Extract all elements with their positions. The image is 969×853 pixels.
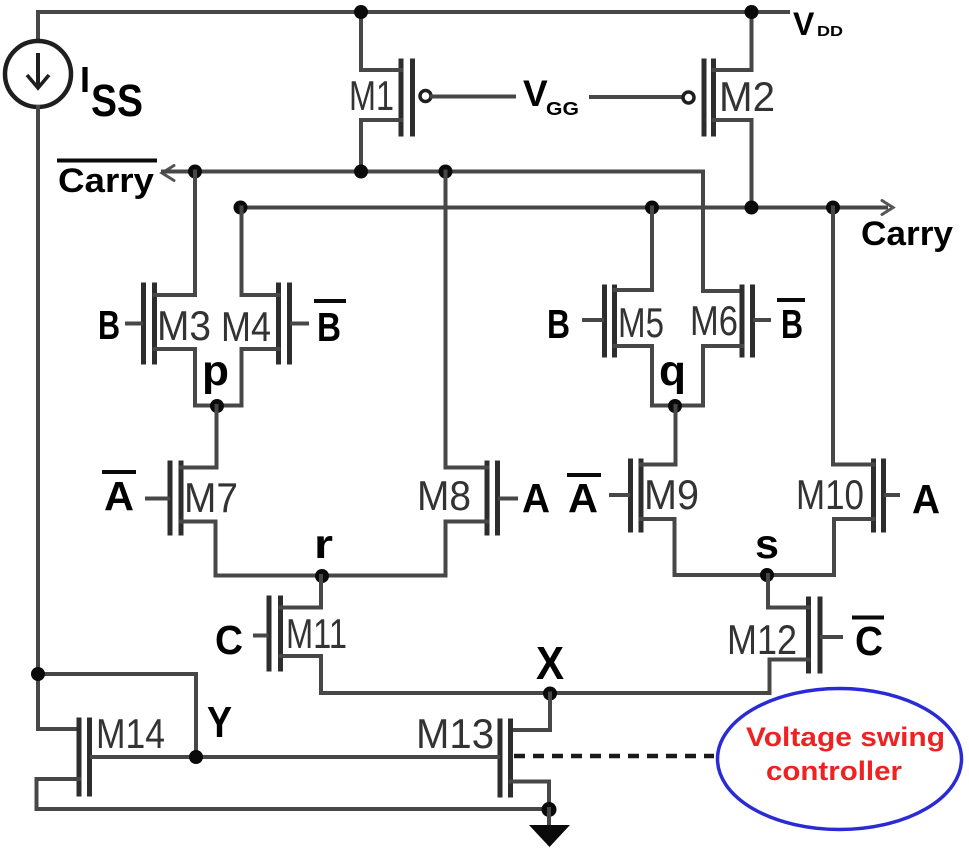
svg-text:C: C xyxy=(215,617,243,663)
svg-text:V: V xyxy=(523,73,548,114)
transistor M9 xyxy=(611,461,699,575)
svg-text:Voltage swing: Voltage swing xyxy=(746,722,945,752)
svg-text:Carry: Carry xyxy=(861,215,953,253)
svg-text:A: A xyxy=(912,476,940,522)
transistor M6 xyxy=(690,287,769,406)
node p xyxy=(195,347,242,413)
node A-bar label M9 xyxy=(567,475,601,521)
svg-text:GG: GG xyxy=(546,99,579,119)
node C-bar label M12 xyxy=(852,618,884,665)
node Carry-bar label xyxy=(57,161,157,201)
svg-text:B: B xyxy=(317,304,341,350)
svg-text:I: I xyxy=(80,59,90,100)
node VDD label xyxy=(793,6,843,42)
node X xyxy=(536,637,564,701)
wire q to M9 xyxy=(674,406,678,465)
node junction dot M2-VDD xyxy=(745,5,759,19)
wire p to M7 xyxy=(215,406,219,468)
wire Y line M14 gate to M13 gate xyxy=(92,755,498,759)
wire ISS vertical left rail xyxy=(38,107,79,729)
node junction dots on Carry-bar line xyxy=(188,165,202,179)
voltage swing controller ellipse xyxy=(718,689,962,830)
transistor M2 xyxy=(683,12,775,208)
wire r to M11 xyxy=(319,576,323,608)
svg-text:M13: M13 xyxy=(416,710,494,757)
svg-text:q: q xyxy=(659,347,686,395)
svg-text:s: s xyxy=(755,521,779,567)
wire Carry line with right arrow xyxy=(241,201,894,215)
svg-text:V: V xyxy=(793,6,815,42)
svg-text:M3: M3 xyxy=(157,302,211,349)
transistor M10 xyxy=(796,208,898,576)
node junction dot left xyxy=(31,667,45,681)
svg-text:A: A xyxy=(104,473,134,519)
svg-text:C: C xyxy=(855,618,883,664)
node Y xyxy=(189,698,232,764)
svg-text:M12: M12 xyxy=(727,616,797,663)
svg-text:M14: M14 xyxy=(96,710,165,757)
wire VGG right segment xyxy=(591,95,682,99)
svg-text:A: A xyxy=(522,475,550,521)
transistor M12 xyxy=(727,599,841,693)
svg-text:r: r xyxy=(314,521,333,567)
wire VGG left segment xyxy=(432,95,514,99)
node junction dot M1-VDD xyxy=(354,5,368,19)
node q xyxy=(652,347,703,413)
wire ISS to Y loop xyxy=(38,674,196,757)
transistor M1 xyxy=(349,12,431,172)
svg-text:M1: M1 xyxy=(349,72,394,119)
wire X to M13 xyxy=(511,694,551,731)
transistor M7 xyxy=(147,463,238,576)
node junction dots on Carry line xyxy=(234,201,248,215)
wire VDD rail xyxy=(38,10,788,14)
svg-text:M11: M11 xyxy=(286,610,347,657)
svg-text:p: p xyxy=(202,347,229,395)
transistor M5 xyxy=(584,208,664,406)
svg-text:M10: M10 xyxy=(796,471,864,518)
svg-text:B: B xyxy=(98,302,120,348)
node B-bar label M6 xyxy=(777,300,805,347)
svg-text:M8: M8 xyxy=(417,472,471,519)
svg-text:X: X xyxy=(536,637,564,689)
svg-text:M2: M2 xyxy=(719,73,775,120)
wire bottom rail xyxy=(37,807,550,811)
svg-text:Y: Y xyxy=(207,698,232,747)
wire Carry-bar line with left arrow xyxy=(162,166,740,292)
svg-text:A: A xyxy=(568,475,598,521)
svg-text:Carry: Carry xyxy=(58,162,154,200)
transistor M13 xyxy=(416,710,549,809)
svg-text:M5: M5 xyxy=(618,299,664,346)
svg-text:M9: M9 xyxy=(644,471,699,518)
svg-text:controller: controller xyxy=(766,756,903,786)
transistor M8 xyxy=(417,172,516,576)
node s xyxy=(675,521,835,582)
transistor M3 xyxy=(127,172,211,406)
wire s to M12 xyxy=(766,575,770,608)
svg-text:M6: M6 xyxy=(690,297,738,344)
transistor M4 xyxy=(221,208,307,406)
svg-text:DD: DD xyxy=(817,23,843,40)
node A-bar label M7 xyxy=(102,472,136,519)
node B-bar label M4 xyxy=(314,301,346,350)
svg-text:B: B xyxy=(781,301,803,347)
node r xyxy=(216,521,446,583)
node VGG label xyxy=(523,73,579,119)
svg-text:B: B xyxy=(547,301,570,347)
svg-text:M4: M4 xyxy=(221,303,271,350)
current source ISS xyxy=(5,12,143,126)
transistor M14 xyxy=(37,710,166,809)
wire X line xyxy=(321,691,770,695)
transistor M11 xyxy=(255,598,347,693)
wire dotted to controller xyxy=(514,754,714,759)
svg-text:SS: SS xyxy=(91,75,143,126)
ground xyxy=(529,802,570,847)
svg-text:M7: M7 xyxy=(184,474,238,521)
